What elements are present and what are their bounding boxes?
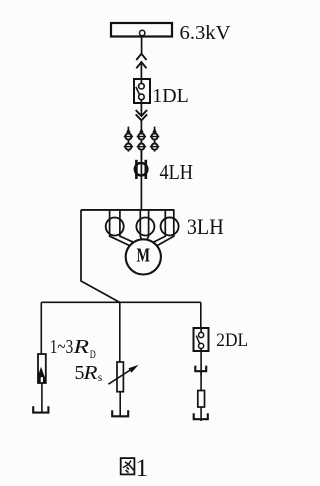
svg-text:1~3: 1~3 — [50, 336, 74, 358]
svg-text:D: D — [90, 349, 96, 361]
svg-text:2DL: 2DL — [216, 330, 248, 351]
svg-text:4LH: 4LH — [160, 160, 194, 184]
svg-text:R: R — [82, 362, 97, 384]
svg-text:s: s — [98, 372, 103, 384]
svg-text:3LH: 3LH — [187, 214, 224, 239]
svg-text:M: M — [137, 246, 151, 267]
svg-text:1DL: 1DL — [152, 85, 188, 107]
svg-text:R: R — [72, 336, 89, 358]
svg-text:1: 1 — [136, 455, 149, 482]
svg-text:6.3kV: 6.3kV — [180, 22, 232, 44]
